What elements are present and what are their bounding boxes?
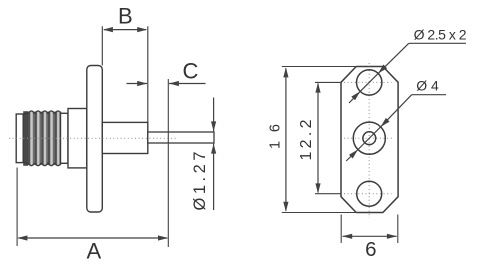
dimension 6 extension lines <box>341 215 398 244</box>
dimension 12.2 extension lines <box>315 82 342 193</box>
centerline of bottom mounting hole <box>344 193 392 195</box>
center contact pin <box>148 132 214 143</box>
dimension C extension line <box>167 79 169 247</box>
dimension A extension line <box>16 168 18 247</box>
top mounting hole <box>357 70 382 95</box>
centerline of connector axis <box>9 137 176 139</box>
body ring behind nut <box>61 113 69 163</box>
svg-text:A: A <box>86 239 101 264</box>
flange plate outline (front view) <box>341 67 398 213</box>
connector front end cap <box>16 114 23 163</box>
centerline of top mounting hole <box>344 81 392 83</box>
dimension 6 line with arrows <box>342 234 397 239</box>
dimension B line with arrows <box>103 27 147 32</box>
bottom mounting hole <box>357 181 382 206</box>
threaded coupling nut <box>23 110 61 166</box>
svg-text:C: C <box>183 59 199 84</box>
rear body cylinder <box>102 122 148 153</box>
dimension B extension lines <box>102 26 148 122</box>
dimension A line with arrows <box>17 235 168 240</box>
svg-text:Ø 4: Ø 4 <box>416 77 439 93</box>
dimension 16 line with arrows <box>283 67 288 211</box>
svg-text:B: B <box>118 4 133 29</box>
pin diameter dimension lines <box>211 98 216 211</box>
flange plate (side view) <box>87 66 103 213</box>
dimension 12.2 line with arrows <box>315 83 320 194</box>
center contact pin (front view) <box>363 132 376 145</box>
svg-text:16: 16 <box>268 124 284 149</box>
svg-text:Ø 2.5 x 2: Ø 2.5 x 2 <box>414 26 467 42</box>
vertical centerline of flange <box>368 63 370 218</box>
center hole <box>353 122 385 154</box>
leader line diameter 2.5 holes <box>349 43 466 103</box>
dimension 16 extension lines <box>282 67 358 213</box>
svg-text:12.2: 12.2 <box>298 119 315 160</box>
connector body shoulder <box>68 109 87 168</box>
centerline of center hole <box>344 137 394 139</box>
dimension C line with arrows <box>127 81 206 86</box>
svg-text:Ø1.27: Ø1.27 <box>191 152 209 211</box>
leader line diameter 4 hole <box>346 95 446 161</box>
svg-text:6: 6 <box>365 238 376 261</box>
